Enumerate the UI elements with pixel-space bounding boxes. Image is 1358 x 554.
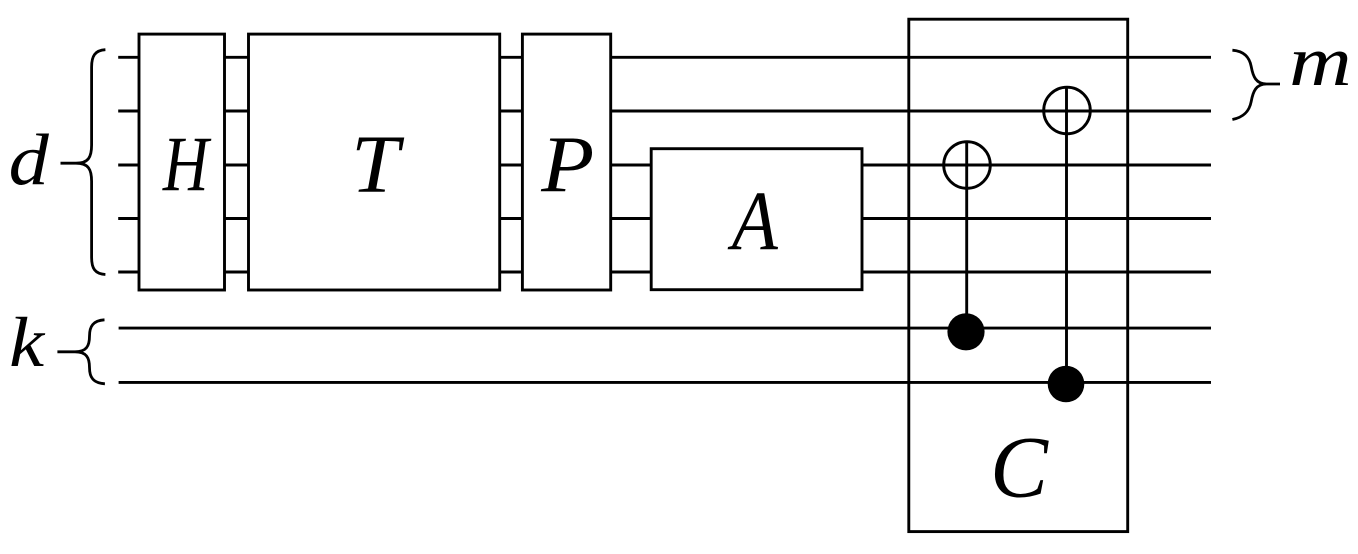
cnot1 control dot on k1 [947, 313, 984, 350]
gate label H [162, 122, 212, 208]
gate box H [139, 34, 225, 290]
label d [9, 119, 50, 201]
gate box A [651, 149, 862, 290]
wire q2 [118, 110, 1211, 113]
brace for k register [57, 320, 105, 384]
svg-text:P: P [540, 119, 594, 209]
wire k2 [119, 381, 1211, 384]
gate label P [540, 119, 594, 209]
cnot2 target circle on q2 [1044, 87, 1091, 134]
svg-text:H: H [162, 122, 212, 208]
svg-text:m: m [1289, 22, 1352, 101]
gate label T [351, 118, 405, 210]
brace for d register [61, 50, 106, 275]
cnot1 vertical line [965, 141, 968, 332]
wire q3 [118, 164, 1211, 167]
brace for m output [1232, 50, 1280, 119]
gate label C [990, 418, 1049, 516]
wire k1 [119, 327, 1211, 330]
label k [9, 303, 46, 382]
cnot2 control dot on k2 [1048, 366, 1085, 403]
gate box T [249, 34, 500, 290]
cnot2 vertical line [1065, 87, 1068, 385]
svg-text:T: T [351, 118, 405, 210]
label m [1289, 22, 1352, 101]
gate box C (outline, drawn under wires) [909, 19, 1128, 531]
cnot1 target circle on q3 [944, 142, 991, 189]
svg-text:A: A [727, 176, 779, 269]
svg-text:C: C [990, 418, 1049, 516]
svg-text:k: k [9, 303, 46, 382]
wire q4 [118, 217, 1211, 220]
gate box P [522, 34, 610, 290]
svg-text:d: d [9, 119, 50, 201]
wire q5 [118, 271, 1211, 274]
gate label A [727, 176, 779, 269]
wire q1 [118, 56, 1211, 59]
